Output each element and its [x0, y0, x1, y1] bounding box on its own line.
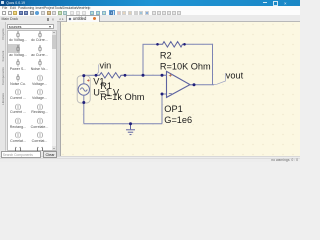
tab bar — [57, 15, 300, 22]
title bar — [0, 0, 300, 6]
dock title — [2, 17, 19, 21]
schematic canvas — [60, 22, 301, 156]
voltage source V1 — [77, 76, 90, 103]
wire R1 to opamp minus input — [125, 74, 167, 76]
resistor R1 — [96, 73, 125, 78]
node opamp output — [192, 83, 195, 86]
wire opamp plus input stub — [162, 93, 167, 95]
node label vout leader — [213, 73, 225, 85]
node opamp plus input — [160, 93, 163, 96]
svg-text:OP1: OP1 — [164, 104, 182, 114]
node R2 right pin — [183, 43, 186, 46]
resistor R2 — [157, 42, 184, 47]
wire R2 right leg — [211, 44, 213, 85]
node R2 left pin — [156, 43, 159, 46]
wire plus input down leg — [161, 94, 163, 124]
search row — [1, 151, 41, 157]
active tab: untitled — [66, 15, 100, 22]
node ground junction — [129, 122, 132, 125]
wire R2 left leg — [142, 44, 144, 75]
wire V1 top to R1 — [83, 74, 95, 76]
wire V1 bottom leg — [82, 103, 84, 124]
node vin / R1 left — [94, 74, 97, 77]
wire R2 top right — [184, 43, 212, 45]
node label vin leader — [96, 65, 99, 76]
node V1 top — [82, 74, 85, 77]
circuit svg — [60, 22, 301, 158]
dock panel background — [0, 16, 57, 158]
vertical tab strip — [0, 22, 6, 152]
status bar — [0, 156, 300, 163]
svg-text:vin: vin — [99, 61, 111, 71]
toolbar — [0, 10, 300, 16]
combo box: sources — [7, 24, 54, 30]
node V1 bottom — [82, 101, 85, 104]
junction dots — [82, 43, 195, 125]
svg-text:R=1k Ohm: R=1k Ohm — [100, 92, 145, 102]
menu bar — [0, 6, 300, 11]
labels — [93, 51, 243, 125]
svg-text:vout: vout — [225, 70, 243, 80]
wire R2 top left — [142, 43, 157, 45]
list scrollbar — [52, 31, 56, 151]
component list — [7, 30, 58, 151]
node opamp minus input — [160, 74, 163, 77]
svg-text:R2: R2 — [159, 51, 171, 61]
svg-text:R=10K Ohm: R=10K Ohm — [159, 62, 210, 72]
splitter — [57, 22, 60, 157]
wire opamp output to vout — [190, 84, 214, 86]
node R1 right — [123, 74, 126, 77]
op-amp OP1 — [162, 71, 194, 97]
ground — [126, 124, 135, 135]
svg-text:G=1e6: G=1e6 — [164, 115, 192, 125]
svg-text:R1: R1 — [100, 81, 112, 91]
node R2 branch junction — [141, 74, 144, 77]
wire bottom rail — [83, 123, 161, 125]
selected cell highlight (ac Voltage Source) — [8, 44, 21, 53]
